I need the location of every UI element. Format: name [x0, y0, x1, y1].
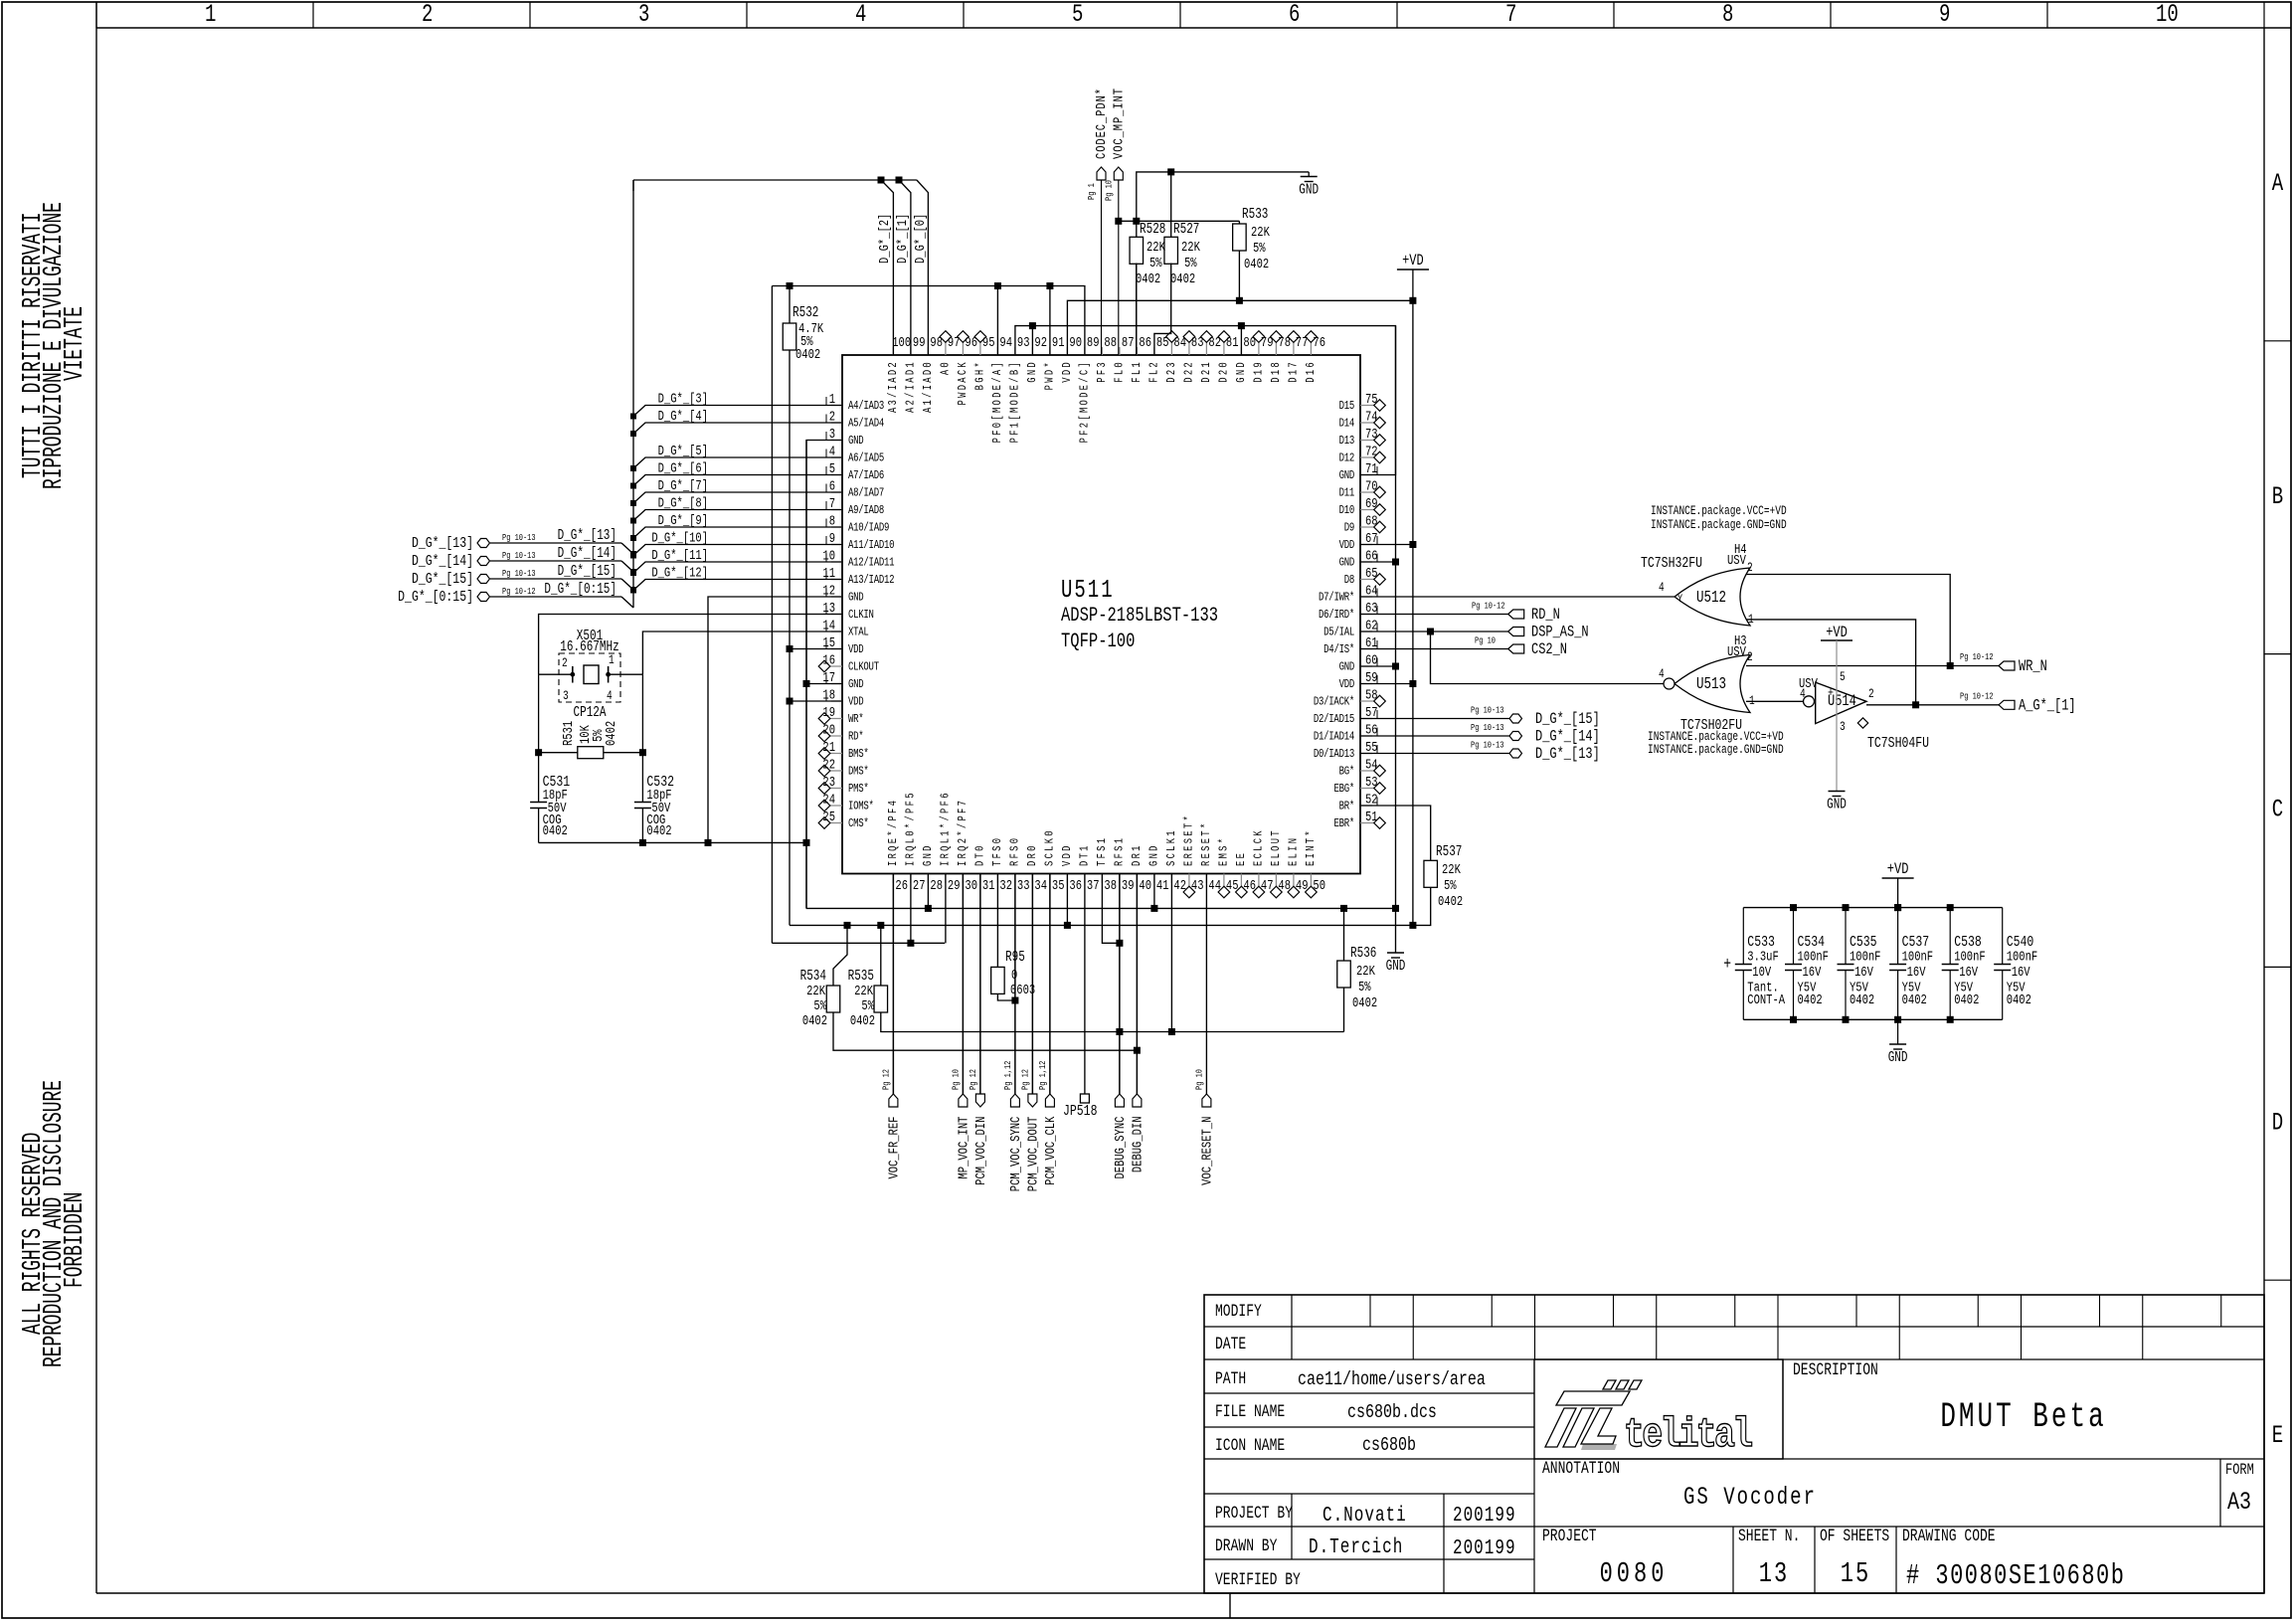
wire pin94 up [996, 286, 998, 356]
resistor R534 [826, 986, 840, 1012]
svg-text:TFS1: TFS1 [1096, 836, 1110, 866]
node bus tap D_G*_[7] [630, 500, 636, 506]
svg-text:IRQ2*/PF7: IRQ2*/PF7 [957, 799, 970, 866]
svg-text:JP518: JP518 [1063, 1104, 1097, 1121]
capacitor C537 [1897, 908, 1899, 965]
svg-text:99: 99 [913, 335, 926, 351]
svg-text:DR0: DR0 [1026, 843, 1040, 866]
wire pin36 VDD down [1066, 874, 1068, 926]
U511 pin 68 D9 [1360, 526, 1374, 528]
svg-text:D23: D23 [1165, 360, 1179, 383]
svg-text:PCM_VOC_SYNC: PCM_VOC_SYNC [1008, 1117, 1024, 1192]
wire R527 bottom to pin85 [1154, 264, 1171, 356]
svg-text:D15: D15 [1339, 400, 1354, 414]
U511 pin 18 VDD [831, 700, 842, 702]
U511 pin 52 BR* [1360, 805, 1372, 807]
page connector PCM_VOC_DOUT [1031, 874, 1033, 1095]
wire U514 power stem [1836, 640, 1838, 792]
svg-text:PCM_VOC_DIN: PCM_VOC_DIN [973, 1117, 989, 1185]
U511 pin 62 D5/IAL [1360, 631, 1372, 632]
svg-text:A4/IAD3: A4/IAD3 [848, 400, 884, 414]
wire R533 bottom [1238, 251, 1240, 300]
U511 pin 8 A10/IAD9 [831, 526, 842, 528]
wire D_G*_[11] to pin 10 [633, 562, 842, 573]
crystal X501 left plate [572, 666, 574, 683]
ground symbol cap bank [1889, 1043, 1906, 1045]
svg-text:D_G*_[15]: D_G*_[15] [412, 572, 473, 589]
svg-text:65: 65 [1365, 566, 1378, 582]
wire VOC_MP_INT to R533 [1119, 220, 1240, 222]
svg-text:CS2_N: CS2_N [1531, 641, 1567, 659]
svg-text:ECLCK: ECLCK [1253, 828, 1267, 866]
wire pin18 VDD [790, 700, 842, 702]
title block row line empty/PROJECT BY [1204, 1493, 1534, 1495]
wire pin33 down [1014, 874, 1016, 1095]
svg-text:A10/IAD9: A10/IAD9 [848, 521, 889, 535]
svg-text:D_G*_[14]: D_G*_[14] [412, 554, 473, 571]
title block outline [1204, 1295, 2264, 1593]
U511 pin 97 A0 [945, 342, 947, 355]
svg-text:D_G*_[10]: D_G*_[10] [651, 530, 708, 546]
svg-text:D_G*_[13]: D_G*_[13] [558, 527, 617, 544]
U511 pin 60 GND [1360, 665, 1372, 667]
svg-text:24: 24 [822, 792, 835, 808]
wire pin15 VDD [790, 648, 842, 650]
svg-text:A2/IAD1: A2/IAD1 [905, 360, 919, 413]
svg-text:D_G*_[0:15]: D_G*_[0:15] [398, 590, 473, 607]
wire MODE net horizontal [772, 286, 1085, 356]
svg-text:D21: D21 [1200, 360, 1214, 383]
node R527 top junction [1167, 168, 1174, 175]
svg-text:BMS*: BMS* [848, 748, 869, 762]
wire GND symbol stem right [1395, 908, 1397, 953]
wire R534 top [833, 925, 847, 986]
svg-text:0402: 0402 [802, 1013, 827, 1029]
U511 pin 99 A2/IAD1 [910, 347, 912, 355]
U511 pin 30 IRQ2*/PF7 [962, 874, 964, 884]
U511 pin 23 PMS* [830, 788, 842, 790]
svg-text:5%: 5% [813, 998, 826, 1014]
svg-text:4: 4 [1800, 688, 1806, 702]
svg-text:85: 85 [1156, 335, 1169, 351]
U511 pin 31 DT0 [979, 874, 981, 884]
svg-text:77: 77 [1296, 335, 1309, 351]
right ruler tick C [2264, 653, 2291, 655]
svg-text:88: 88 [1104, 335, 1117, 351]
svg-text:GND: GND [1827, 796, 1847, 812]
wire pin61 CS2_N [1360, 648, 1508, 650]
svg-text:Pg 10: Pg 10 [1105, 180, 1115, 201]
svg-text:+VD: +VD [1887, 861, 1909, 879]
U511 pin 93 PF1[MODE/B] [1014, 347, 1016, 355]
node rail4 pin39 junction [1116, 1028, 1123, 1035]
wire pin60 GND [1360, 665, 1396, 667]
svg-text:D_G*_[9]: D_G*_[9] [658, 513, 708, 529]
svg-text:telital: telital [1624, 1411, 1752, 1459]
svg-text:26: 26 [895, 878, 908, 894]
svg-text:7: 7 [1505, 0, 1516, 29]
node bus tap D_G*_[6] [630, 483, 636, 489]
svg-text:4: 4 [855, 0, 866, 29]
top ruler tick 9 [1830, 2, 1832, 28]
svg-text:R527: R527 [1173, 221, 1199, 238]
node pin60 GND junction [1392, 663, 1399, 670]
svg-text:0603: 0603 [1010, 983, 1035, 998]
svg-text:A0: A0 [940, 360, 954, 375]
svg-text:Pg 1,12: Pg 1,12 [1038, 1061, 1048, 1090]
svg-text:D_G*_[2]: D_G*_[2] [877, 214, 893, 264]
U511 pin 54 BG* [1360, 770, 1374, 772]
U511 pin 12 GND [831, 596, 842, 598]
svg-text:98: 98 [930, 335, 943, 351]
wire pin71 GND [1360, 326, 1396, 475]
svg-text:Pg 12: Pg 12 [969, 1069, 978, 1090]
svg-text:R534: R534 [800, 968, 827, 985]
node MODE tap pin94 [994, 282, 1001, 289]
svg-text:A: A [2272, 169, 2284, 198]
svg-text:Pg 12: Pg 12 [1021, 1069, 1031, 1090]
wire GND rail vertical [805, 441, 807, 909]
svg-text:100: 100 [892, 335, 911, 351]
svg-text:97: 97 [948, 335, 961, 351]
svg-text:RFS1: RFS1 [1114, 836, 1128, 866]
U511 pin 89 PF2[MODE/C] [1084, 347, 1086, 355]
svg-text:54: 54 [1365, 757, 1378, 773]
resistor R95 [991, 967, 1005, 993]
U511 pin 72 D12 [1360, 456, 1374, 458]
svg-text:DT1: DT1 [1079, 843, 1093, 866]
U511 pin 34 DR0 [1031, 874, 1033, 884]
svg-text:ELIN: ELIN [1288, 836, 1302, 866]
U511 pin 90 VDD [1066, 347, 1068, 355]
right ruler band left line [2263, 28, 2265, 1593]
wire crystal caps ground rail [539, 841, 806, 843]
U511 pin 27 IRQL0*/PF5 [910, 874, 912, 884]
node bus tap D_G*_[4] [630, 431, 636, 437]
svg-text:58: 58 [1365, 687, 1378, 703]
svg-text:0402: 0402 [1438, 894, 1463, 910]
svg-text:87: 87 [1122, 335, 1135, 351]
svg-text:VDD: VDD [848, 695, 863, 709]
node rail1 R536 junction [1340, 905, 1347, 912]
svg-text:TC7SH32FU: TC7SH32FU [1641, 556, 1702, 573]
wire D_G*_[3] to pin 1 [633, 406, 842, 417]
ground symbol top GND [1308, 172, 1310, 177]
U511 pin 13 CLKIN [831, 614, 842, 616]
wire GND rail1 bottom [806, 907, 1396, 909]
title block logo box [1534, 1359, 1783, 1459]
svg-text:3: 3 [563, 690, 569, 704]
top ruler band bottom line [96, 27, 2291, 29]
svg-text:D_G*_[0]: D_G*_[0] [913, 214, 929, 264]
node pin18 VDD junction [787, 698, 794, 705]
svg-text:D6/IRD*: D6/IRD* [1319, 609, 1354, 623]
svg-text:WR_N: WR_N [2019, 658, 2047, 676]
node bus tap D_G*_[9] [630, 535, 636, 541]
svg-text:R535: R535 [848, 968, 874, 985]
svg-text:23: 23 [822, 775, 835, 791]
svg-text:Pg 10: Pg 10 [1475, 636, 1496, 646]
wire R534 bottom rail5 [833, 1012, 1137, 1050]
U511 pin 15 VDD [831, 648, 842, 650]
svg-text:22K: 22K [1356, 964, 1375, 980]
node rail1 pin41 junction [1150, 905, 1157, 912]
svg-text:CLKIN: CLKIN [848, 609, 874, 623]
svg-text:2: 2 [422, 0, 433, 29]
title block DATE row cells [1412, 1327, 1414, 1359]
svg-text:81: 81 [1226, 335, 1239, 351]
svg-text:D11: D11 [1339, 486, 1354, 500]
svg-text:FL2: FL2 [1148, 360, 1162, 383]
U511 pin 20 RD* [830, 735, 842, 737]
node rail2 pin42x junction [1409, 922, 1416, 929]
page connector VOC_MP_INT [1114, 167, 1123, 180]
node R531 left junction [535, 749, 542, 756]
svg-text:D_G*_[12]: D_G*_[12] [651, 565, 708, 581]
node rail2 R535 junction [877, 922, 884, 929]
svg-text:0402: 0402 [1850, 992, 1874, 1008]
crystal X501 right plate wire [609, 673, 643, 675]
svg-text:100nF: 100nF [2007, 949, 2037, 965]
svg-text:94: 94 [999, 335, 1012, 351]
svg-text:22K: 22K [1181, 240, 1200, 256]
svg-text:D_G*_[15]: D_G*_[15] [1535, 711, 1600, 729]
svg-text:40: 40 [1139, 878, 1151, 894]
U511 pin 69 D10 [1360, 509, 1374, 511]
node bus tap D_G*_[10] [630, 553, 636, 559]
svg-text:75: 75 [1365, 392, 1378, 408]
svg-text:Pg 1: Pg 1 [1087, 183, 1097, 200]
svg-text:ICON NAME: ICON NAME [1215, 1435, 1285, 1455]
svg-text:R528: R528 [1140, 221, 1165, 238]
svg-text:Pg 10-13: Pg 10-13 [1471, 706, 1504, 716]
svg-text:33: 33 [1017, 878, 1030, 894]
svg-text:BGH*: BGH* [974, 360, 988, 390]
node rail2 pin36 junction [1064, 922, 1071, 929]
node rail3 pin27 junction [907, 940, 914, 947]
svg-text:22K: 22K [1442, 862, 1461, 878]
page connector A_G*_[1] [1999, 700, 2015, 709]
svg-text:100nF: 100nF [1954, 949, 1985, 965]
svg-text:DT0: DT0 [974, 843, 988, 866]
svg-text:GND: GND [848, 678, 863, 692]
svg-text:SCLK0: SCLK0 [1044, 828, 1058, 866]
svg-text:D_G*_[1]: D_G*_[1] [895, 214, 911, 264]
svg-text:10: 10 [2156, 0, 2179, 29]
wire R531 left [539, 752, 578, 754]
right ruler tick B [2264, 340, 2291, 342]
svg-text:RD*: RD* [848, 730, 863, 744]
page connector D_G*_[14] [1360, 735, 1509, 737]
page connector DEBUG_SYNC [1119, 874, 1121, 1095]
U511 pin 53 EBG* [1360, 788, 1374, 790]
wire pin80 up [1240, 326, 1242, 355]
U511 pin 67 VDD [1360, 544, 1372, 546]
U511 pin 9 A11/IAD10 [831, 544, 842, 546]
svg-text:cs680b: cs680b [1362, 1434, 1416, 1457]
wire cap bank bottom rail [1743, 1018, 2002, 1020]
svg-text:VDD: VDD [1339, 539, 1354, 553]
svg-text:D0/IAD13: D0/IAD13 [1314, 748, 1354, 762]
svg-text:6: 6 [1289, 0, 1300, 29]
wire pin35 down [1049, 874, 1051, 1095]
node DSP_AS_N junction [1427, 629, 1434, 635]
wire VDD rail vertical lower [789, 350, 791, 925]
U511 pin 80 GND [1240, 347, 1242, 355]
U511 pin 5 A7/IAD6 [831, 474, 842, 476]
svg-text:D4/IS*: D4/IS* [1323, 643, 1354, 657]
wire pin41 GND down [1153, 874, 1155, 909]
node bus tap pin100 [878, 177, 885, 184]
svg-text:A3/IAD2: A3/IAD2 [887, 360, 901, 413]
U511 pin 76 D16 [1310, 342, 1312, 355]
svg-text:WR*: WR* [848, 713, 863, 727]
wire +VD rail top horizontal [1067, 300, 1413, 355]
node C532 gnd junction [639, 839, 646, 846]
wire pin39 DEBUG_SYNC down [1119, 874, 1121, 1095]
svg-text:D9: D9 [1344, 521, 1354, 535]
svg-text:83: 83 [1191, 335, 1204, 351]
U511 pin 2 A5/IAD4 [831, 422, 842, 424]
node bus tap D_G*_[3] [630, 414, 636, 420]
U511 pin 56 D1/IAD14 [1360, 735, 1372, 737]
svg-text:4: 4 [607, 690, 613, 704]
svg-text:Pg 10-13: Pg 10-13 [1471, 741, 1504, 751]
svg-text:38: 38 [1104, 878, 1117, 894]
wire pin37 DT1 to JP518 [1084, 874, 1086, 1095]
svg-text:5%: 5% [1184, 256, 1197, 271]
title block label col divider [1291, 1295, 1293, 1359]
U511 pin 28 GND [927, 874, 929, 884]
svg-text:D19: D19 [1253, 360, 1267, 383]
U511 pin 58 D3/IACK* [1360, 700, 1374, 702]
wire U512 pin2 to WR_N [1746, 575, 1950, 667]
svg-text:FL0: FL0 [1114, 360, 1128, 383]
node pin59 VDD junction [1409, 680, 1416, 687]
svg-text:PROJECT: PROJECT [1542, 1526, 1597, 1545]
svg-text:VOC_MP_INT: VOC_MP_INT [1111, 88, 1127, 159]
svg-text:25: 25 [822, 810, 835, 825]
resistor R528 [1130, 237, 1144, 264]
svg-text:TFS0: TFS0 [991, 836, 1005, 866]
wire MODE net vertical [771, 286, 773, 944]
wire MODE rail3 bottom [772, 942, 945, 944]
node bus tap D_G*_[8] [630, 518, 636, 524]
svg-text:MP_VOC_INT: MP_VOC_INT [956, 1117, 971, 1179]
svg-text:D_G*_[4]: D_G*_[4] [658, 409, 708, 425]
wire to U511 pin98 [917, 180, 929, 355]
svg-text:78: 78 [1278, 335, 1291, 351]
svg-text:GS Vocoder: GS Vocoder [1683, 1484, 1817, 1512]
svg-text:GND: GND [1339, 556, 1354, 570]
svg-text:R532: R532 [793, 304, 818, 321]
svg-text:VDD: VDD [1061, 360, 1075, 383]
power symbol +VD top [1397, 269, 1429, 271]
title block annotation bottom [1534, 1458, 2264, 1460]
svg-text:PWDACK: PWDACK [957, 360, 970, 405]
U511 pin 94 PF0[MODE/A] [996, 347, 998, 355]
svg-text:D16: D16 [1305, 360, 1319, 383]
U511 pin 77 D17 [1293, 342, 1295, 355]
svg-text:R533: R533 [1242, 206, 1268, 223]
U511 pin 11 A13/IAD12 [831, 579, 842, 581]
title block row line DATE/PATH [1204, 1358, 2264, 1360]
top ruler tick 2 [312, 2, 314, 28]
svg-text:37: 37 [1087, 878, 1100, 894]
svg-text:16V: 16V [1907, 965, 1926, 981]
svg-text:0402: 0402 [646, 823, 671, 839]
wire D_G*_[12] to pin 11 [633, 580, 842, 591]
U511 pin 66 GND [1360, 561, 1372, 563]
wire R536 top [1343, 908, 1345, 961]
wire R535 bottom rail4 [881, 1012, 1344, 1032]
U511 pin 64 D7/IWR* [1360, 596, 1372, 598]
top ruler tick 6 [1179, 2, 1181, 28]
svg-text:cs680b.dcs: cs680b.dcs [1347, 1401, 1437, 1424]
svg-text:D_G*_[0:15]: D_G*_[0:15] [544, 581, 617, 598]
svg-text:D7/IWR*: D7/IWR* [1319, 591, 1354, 605]
resistor R537 [1424, 860, 1438, 887]
wire pin63 RD_N [1360, 614, 1508, 616]
svg-text:GND: GND [1339, 469, 1354, 483]
title block project row dividers [1732, 1527, 1734, 1593]
wire pin32 to R95 [996, 874, 998, 968]
svg-text:2: 2 [562, 657, 568, 671]
U511 pin 85 FL2 [1153, 347, 1155, 355]
svg-text:A11/IAD10: A11/IAD10 [848, 539, 894, 553]
svg-text:35: 35 [1052, 878, 1065, 894]
svg-text:89: 89 [1087, 335, 1100, 351]
svg-text:VOC_FR_REF: VOC_FR_REF [886, 1117, 902, 1179]
node crystal right dot [606, 672, 611, 677]
svg-text:Pg 10: Pg 10 [1195, 1069, 1205, 1090]
node R95 pin33 junction [1011, 997, 1018, 1004]
svg-text:100nF: 100nF [1798, 949, 1829, 965]
svg-text:VOC_RESET_N: VOC_RESET_N [1199, 1117, 1215, 1185]
svg-text:D.Tercich: D.Tercich [1309, 1534, 1403, 1559]
svg-text:0402: 0402 [1954, 992, 1979, 1008]
svg-text:84: 84 [1173, 335, 1186, 351]
page connector PCM_VOC_DIN [979, 874, 981, 1095]
svg-text:D_G*_[14]: D_G*_[14] [558, 545, 617, 562]
svg-text:IRQE*/PF4: IRQE*/PF4 [887, 799, 901, 866]
U511 pin 40 DR1 [1136, 874, 1138, 884]
svg-text:EE: EE [1235, 851, 1249, 866]
svg-text:73: 73 [1365, 427, 1378, 443]
svg-text:DESCRIPTION: DESCRIPTION [1793, 1359, 1878, 1379]
svg-text:D_G*_[13]: D_G*_[13] [412, 536, 473, 553]
inverter U514 input bubble [1804, 696, 1815, 707]
svg-text:DSP_AS_N: DSP_AS_N [1531, 624, 1589, 641]
svg-text:CONT-A: CONT-A [1747, 992, 1785, 1008]
svg-text:GND: GND [1299, 181, 1319, 198]
wire D_G*_[8] to pin 7 [633, 510, 842, 521]
node R531 right junction [639, 749, 646, 756]
svg-text:16V: 16V [2012, 965, 2030, 981]
wire D_G* bus vertical [632, 180, 634, 608]
svg-text:70: 70 [1365, 478, 1378, 494]
svg-text:cae11/home/users/area: cae11/home/users/area [1298, 1368, 1486, 1391]
svg-text:200199: 200199 [1453, 1535, 1516, 1560]
wire pin30 down [962, 874, 964, 1095]
right ruler tick D [2264, 966, 2291, 968]
ground symbol right of rail1 [1387, 952, 1404, 954]
wire pin27 down [910, 874, 912, 944]
svg-text:5%: 5% [861, 998, 874, 1014]
svg-text:0402: 0402 [1902, 992, 1927, 1008]
svg-text:D13: D13 [1339, 435, 1354, 449]
page connector D_G*_[15] [477, 575, 490, 584]
